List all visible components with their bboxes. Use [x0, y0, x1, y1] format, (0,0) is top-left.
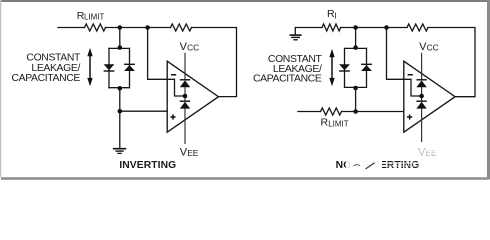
junction internal diodes (left)	[183, 94, 188, 99]
svg-text:CAPACITANCE: CAPACITANCE	[11, 73, 80, 84]
junction box bottom (left)	[118, 86, 123, 91]
svg-text:I: I	[335, 12, 337, 21]
diode D5 (right box, pointing down)	[339, 64, 350, 72]
wire: RI to node D	[341, 27, 407, 29]
wire: RLIMIT to + input (right)	[342, 111, 404, 113]
svg-text:CC: CC	[187, 43, 199, 53]
wire: bottom RLIMIT input (right)	[298, 111, 321, 113]
ground (right top)	[290, 35, 302, 40]
diode D2 (left box, pointing up)	[124, 64, 135, 71]
wire: feedback to output corner (right)	[428, 28, 475, 97]
svg-text:INVERTING: INVERTING	[119, 160, 176, 171]
resistor R_I	[322, 24, 341, 31]
label CONSTANT LEAKAGE/ CAPACITANCE (left)	[11, 52, 81, 84]
svg-text:CAPACITANCE: CAPACITANCE	[253, 74, 322, 85]
op-amp plus sign (left)	[170, 114, 175, 119]
wire: + input (left)	[120, 110, 167, 112]
resistor feedback (left)	[171, 24, 192, 31]
wire: node B to - input (left)	[148, 28, 185, 97]
internal clamp diode D4 (left, from VEE)	[180, 101, 190, 109]
watermark white-out patches	[346, 145, 442, 173]
junction node C	[353, 25, 358, 30]
junction box bottom (right)	[353, 86, 358, 91]
watermark fragments	[354, 163, 375, 169]
internal clamp diode D3 (left, to VCC)	[180, 79, 190, 87]
power line VCC-VEE (left)	[184, 53, 186, 144]
op-amp plus sign (right)	[407, 114, 412, 119]
wire: node C down to diode box (right)	[355, 28, 357, 49]
diode D6 (right box, pointing up)	[361, 64, 372, 71]
wire: box bottom to bottom wire (right)	[355, 87, 357, 111]
wire: node A down to diode box	[119, 28, 121, 49]
diode box left loop	[108, 48, 110, 87]
internal clamp diode D8 (right, from VEE)	[416, 101, 426, 109]
arrow double-head (right)	[329, 49, 334, 86]
resistor feedback (right)	[407, 24, 428, 31]
arrow double-head (left)	[87, 48, 92, 86]
junction box top (left)	[118, 45, 123, 50]
wire: top-left ground corner to RI	[295, 28, 322, 35]
internal clamp diode D7 (right, to VCC)	[416, 79, 426, 87]
diode D1 (left box, pointing down)	[104, 64, 115, 72]
junction + input (left)	[118, 109, 123, 114]
svg-text:CONSTANT: CONSTANT	[26, 52, 81, 63]
resistor R_LIMIT (right)	[321, 108, 342, 115]
wire: node D to - input (right)	[387, 28, 422, 97]
svg-text:EE: EE	[187, 148, 199, 158]
junction node D	[384, 25, 389, 30]
op-amp minus sign (right)	[408, 74, 413, 76]
junction box top (right)	[353, 45, 358, 50]
junction internal diodes (right)	[419, 94, 424, 99]
label VEE (right, eroded by watermark)	[418, 146, 437, 158]
junction node B	[145, 25, 150, 30]
diode box loop (right)	[344, 48, 346, 87]
wire: feedback resistor to output corner	[192, 28, 237, 97]
wire: RLIMIT to node B	[106, 27, 171, 29]
svg-text:LIMIT: LIMIT	[84, 13, 105, 22]
op-amp U2 triangle	[404, 61, 455, 132]
op-amp U1 triangle	[167, 61, 218, 132]
power line VCC-VEE (right)	[421, 53, 423, 142]
svg-text:LEAKAGE/: LEAKAGE/	[31, 63, 80, 74]
watermark erosion stripes over ERTING	[379, 151, 440, 169]
junction node A	[118, 25, 123, 30]
junction + input (right)	[353, 109, 358, 114]
label CONSTANT LEAKAGE/ CAPACITANCE (right)	[253, 54, 323, 85]
wire: left input segment to RLIMIT	[58, 27, 85, 29]
op-amp minus sign (left)	[171, 74, 176, 76]
wire: box bottom down to ground	[119, 88, 121, 148]
resistor R_LIMIT (left)	[85, 24, 106, 31]
ground (left)	[113, 149, 126, 154]
svg-text:LIMIT: LIMIT	[328, 120, 349, 129]
svg-text:CC: CC	[427, 43, 439, 53]
